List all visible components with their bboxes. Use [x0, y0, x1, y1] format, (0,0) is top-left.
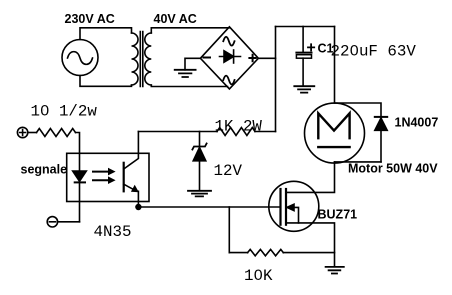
- motor underline: [318, 146, 349, 148]
- resistor R1 10 1/2w: [37, 129, 76, 137]
- svg-text:BUZ71: BUZ71: [318, 208, 358, 222]
- transformer T1 secondary winding: [145, 33, 152, 85]
- wire primary bottom: [80, 76, 132, 87]
- ground at MOSFET source: [326, 267, 344, 274]
- svg-text:220uF 63V: 220uF 63V: [331, 43, 417, 61]
- AC source V1: [62, 40, 98, 76]
- resistor R2 1K 2W: [217, 128, 255, 136]
- capacitor C1: [296, 52, 311, 54]
- opto collector: [124, 153, 139, 169]
- motor M glyph: [318, 113, 349, 138]
- optocoupler U2 4N35 box: [67, 153, 149, 201]
- wire zener to ground: [199, 161, 201, 191]
- opto light arrow 2: [93, 179, 109, 181]
- svg-text:40V AC: 40V AC: [154, 12, 197, 26]
- wire capacitor to ground: [302, 58, 304, 86]
- wire motor top to diode 1N4007: [335, 103, 382, 117]
- wire secondary bottom to bridge: [151, 85, 227, 87]
- transformer T1 core: [140, 32, 143, 87]
- wire gate branch down to 10K: [228, 207, 230, 253]
- svg-text:10K: 10K: [244, 267, 273, 285]
- wire secondary top to bridge: [151, 28, 229, 33]
- svg-text:4N35: 4N35: [94, 223, 132, 241]
- svg-text:1K 2W: 1K 2W: [215, 118, 263, 136]
- ground at zener: [188, 191, 211, 197]
- MOSFET source line: [286, 223, 335, 266]
- wire 12V line: [138, 131, 217, 133]
- opto light arrow 1: [93, 171, 109, 173]
- wire motor bottom to MOSFET drain: [286, 162, 335, 193]
- svg-text:230V AC: 230V AC: [65, 12, 115, 26]
- wire R1 to opto LED anode: [76, 133, 80, 154]
- MOSFET body arrow: [289, 207, 299, 223]
- wire gate: [138, 206, 280, 208]
- wire emitter to junction: [137, 191, 139, 207]
- wire opto collector up to 12V line: [137, 132, 139, 154]
- ground at bridge: [175, 70, 196, 77]
- opto LED: [79, 153, 81, 171]
- svg-text:10 1/2w: 10 1/2w: [31, 103, 98, 121]
- sine wave inside source: [68, 52, 93, 65]
- wire positive rail vertical: [275, 27, 277, 132]
- wire plus terminal to R1: [28, 132, 37, 134]
- bridge internal diode: [220, 56, 241, 58]
- svg-text:1N4007: 1N4007: [395, 116, 439, 130]
- bridge AC mark bottom: [223, 76, 234, 85]
- wire primary top: [80, 28, 132, 40]
- bridge minus mark: [204, 57, 211, 59]
- diode D2 1N4007: [375, 116, 387, 118]
- transformer T1 primary winding: [132, 33, 139, 85]
- wire R2 to positive rail: [255, 131, 276, 133]
- opto emitter: [124, 184, 136, 191]
- wire minus terminal to LED cathode: [58, 221, 80, 223]
- bridge rectifier B1 diamond: [200, 27, 258, 89]
- svg-text:Motor 50W 40V: Motor 50W 40V: [348, 162, 438, 176]
- MOSFET gate bar: [279, 189, 281, 225]
- svg-text:segnale: segnale: [21, 163, 68, 177]
- wire bridge + output to rail junction: [258, 57, 275, 59]
- zener D1 triangle: [193, 148, 206, 161]
- resistor R3 10K: [248, 249, 284, 255]
- wire capacitor tap: [302, 27, 304, 53]
- terminal plus: [17, 127, 27, 137]
- wire rail down to motor: [334, 27, 336, 104]
- terminal minus: [47, 217, 57, 227]
- wire positive rail top: [276, 26, 335, 28]
- svg-text:12V: 12V: [214, 162, 243, 180]
- motor M1: [305, 103, 365, 163]
- bridge plus mark: [249, 55, 255, 61]
- junction dot: [135, 204, 141, 210]
- wire zener tap: [199, 132, 201, 147]
- MOSFET channel bar: [285, 189, 287, 225]
- wire diode bottom to motor bottom: [335, 161, 382, 163]
- wire 10K rail right: [283, 252, 334, 254]
- ground at capacitor: [294, 86, 314, 92]
- wire bridge left vertex to ground: [185, 58, 200, 70]
- bridge AC mark top: [223, 37, 234, 46]
- MOSFET Q1 body circle: [269, 181, 319, 231]
- capacitor plus mark: [308, 44, 314, 50]
- wire 10K rail left: [229, 252, 247, 254]
- zener D1 bar: [192, 144, 206, 150]
- opto phototransistor base bar: [123, 163, 125, 192]
